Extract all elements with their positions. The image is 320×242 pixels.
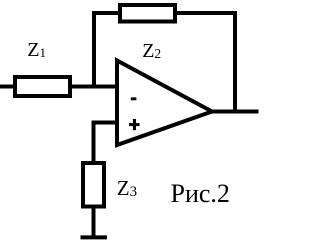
svg-text:Z2: Z2 xyxy=(142,40,161,62)
wire: Z3 bottom terminal to ground xyxy=(92,206,96,237)
impedance Z2 xyxy=(120,5,175,22)
svg-text:Z1: Z1 xyxy=(27,39,46,61)
non-inverting input marker (+) horizontal stroke xyxy=(129,123,140,126)
non-inverting input marker (+) vertical stroke xyxy=(133,119,136,130)
wire: input to Z1 left terminal xyxy=(0,85,16,89)
svg-text:Z3: Z3 xyxy=(117,176,137,200)
impedance Z3 xyxy=(83,163,104,207)
wire: non-inverting input with drop to Z3 xyxy=(94,123,120,165)
inverting input marker (-) xyxy=(131,97,137,100)
wire: feedback left branch up to Z2 xyxy=(94,13,121,88)
wire: Z1 right terminal to inverting input node xyxy=(70,85,119,89)
op-amp U1 xyxy=(117,61,212,146)
ground xyxy=(81,235,108,239)
svg-text:Рис.2: Рис.2 xyxy=(171,179,230,208)
wire: Z2 right terminal down to output node xyxy=(174,13,235,112)
impedance Z1 xyxy=(15,77,70,96)
wire: output xyxy=(208,110,259,114)
